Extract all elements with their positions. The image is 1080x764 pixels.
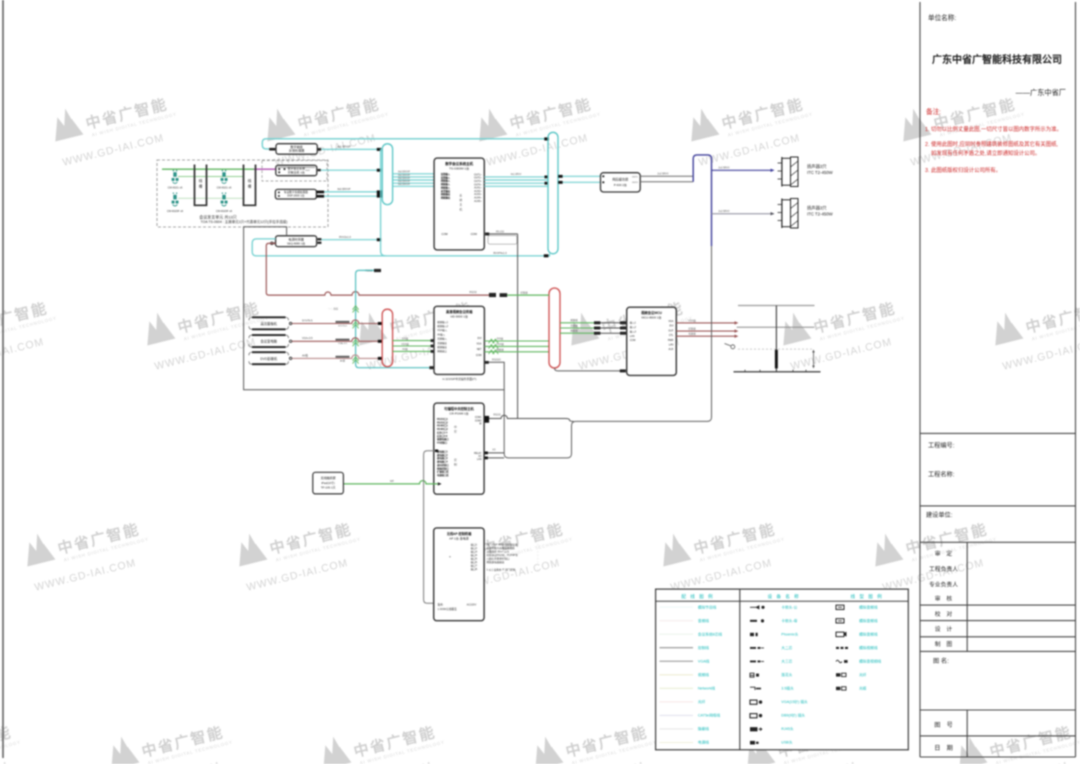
AV source box <box>252 352 286 364</box>
programmable central controller <box>434 403 484 494</box>
power amplifier box <box>601 173 641 192</box>
legend connector row 10 <box>750 727 758 731</box>
svg-text:中: 中 <box>454 424 457 429</box>
svg-text:Phoenix头: Phoenix头 <box>781 631 798 636</box>
legend cable row 3 <box>836 632 844 636</box>
bus C to MCU wires <box>560 322 594 324</box>
svg-text:接口3:: 接口3: <box>471 550 478 554</box>
svg-text:接口7:: 接口7: <box>471 563 478 567</box>
svg-text:工程名称:: 工程名称: <box>928 471 955 479</box>
wire cyan sequencer return loop <box>252 239 549 256</box>
svg-text:AV线: AV线 <box>302 353 308 357</box>
red bus C <box>549 288 560 368</box>
svg-text:设 备 名 称: 设 备 名 称 <box>768 593 801 600</box>
legend connector row 5 <box>750 660 761 662</box>
svg-text:AV线: AV线 <box>402 347 408 351</box>
svg-text:无线AP·控制终端: 无线AP·控制终端 <box>446 531 472 536</box>
svg-text:建设单位:: 建设单位: <box>926 511 953 519</box>
touch panel wire <box>343 481 437 484</box>
svg-text:审 核: 审 核 <box>935 595 953 603</box>
svg-text:高清摄像机: 高清摄像机 <box>260 321 277 326</box>
wire green conference trunk <box>162 168 254 170</box>
svg-text:WWW.GD-IAI.COM: WWW.GD-IAI.COM <box>697 132 801 169</box>
svg-text:1.以上设备由 IT 部门提供: 1.以上设备由 IT 部门提供 <box>487 568 516 572</box>
svg-text:控制主机 1台: 控制主机 1台 <box>288 169 305 174</box>
svg-text:网络线: 网络线 <box>570 329 578 333</box>
feedback suppressor box <box>276 144 317 155</box>
svg-text:纯后级功放: 纯后级功放 <box>612 177 629 182</box>
svg-text:审 定: 审 定 <box>935 550 953 558</box>
svg-text:WWW.GD-IAI.COM: WWW.GD-IAI.COM <box>1001 336 1080 373</box>
red bus D <box>382 309 392 366</box>
svg-text:单位名称:: 单位名称: <box>928 13 956 22</box>
svg-text:线: 线 <box>199 178 203 183</box>
svg-text:CAT5e网络线: CAT5e网络线 <box>698 713 721 718</box>
speaker feeder 1 <box>712 169 771 171</box>
speaker symbol <box>781 199 783 229</box>
HD video conference codec <box>434 306 484 374</box>
svg-text:统: 统 <box>459 197 462 202</box>
svg-text:IR: IR <box>479 423 482 425</box>
dashed box conference-mic zone <box>157 160 328 227</box>
svg-text:音频输入: 音频输入 <box>437 337 447 341</box>
power sequencer box <box>276 236 317 247</box>
legend wire row 5 <box>660 660 694 662</box>
svg-text:DVI线: DVI线 <box>402 336 409 340</box>
svg-text:线: 线 <box>248 178 252 183</box>
cyan trunk line <box>381 149 386 256</box>
legend connector row 7 <box>750 687 755 690</box>
svg-text:WWW.GD-IAI.COM: WWW.GD-IAI.COM <box>0 336 45 373</box>
svg-text:COM: COM <box>476 354 482 357</box>
svg-text:扬声器3只: 扬声器3只 <box>807 205 827 212</box>
svg-text:数字会议系统主机: 数字会议系统主机 <box>444 161 473 166</box>
dashed sub-box around conference host <box>262 161 327 182</box>
svg-text:TOA TS-0604 : 主席单元1只+代表单元12只(手: TOA TS-0604 : 主席单元1只+代表单元12只(手拉手连接) <box>201 219 288 224</box>
svg-text:图 号: 图 号 <box>934 722 953 729</box>
bus A to host wires <box>393 173 434 175</box>
svg-text:模拟音频线: 模拟音频线 <box>859 604 878 609</box>
amp output wires <box>640 175 693 177</box>
svg-text:实现系统内各种设备调用: 实现系统内各种设备调用 <box>487 546 515 550</box>
bus D to codec wires <box>393 340 434 342</box>
cable-duct bracket 2 <box>244 165 256 206</box>
svg-text:PWR: PWR <box>668 339 674 342</box>
svg-text:模拟音频线: 模拟音频线 <box>859 618 878 623</box>
svg-text:OUT: OUT <box>305 170 310 172</box>
svg-text:DVI线: DVI线 <box>497 337 504 341</box>
svg-text:8x0.5RVVP: 8x0.5RVVP <box>398 184 410 186</box>
wire AV source <box>292 338 378 341</box>
projector mark <box>731 345 735 349</box>
cyan bus B <box>548 132 558 254</box>
svg-text:——广东中省厂: ——广东中省厂 <box>1016 88 1066 97</box>
svg-text:DVI: DVI <box>669 325 673 328</box>
svg-text:RJ45头: RJ45头 <box>781 726 794 731</box>
svg-text:扬声器3只: 扬声器3只 <box>807 163 827 170</box>
svg-text:视频会议MCU: 视频会议MCU <box>641 310 662 315</box>
svg-text:线 型 图 例: 线 型 图 例 <box>851 593 884 600</box>
wire AV source <box>292 320 378 324</box>
legend cable row 6 <box>836 673 840 676</box>
svg-text:视频线: 视频线 <box>570 318 578 322</box>
room loop control wire <box>244 227 505 390</box>
svg-text:VGA线: VGA线 <box>496 342 504 346</box>
control stub <box>374 269 381 272</box>
legend connector row 8 <box>750 700 757 704</box>
wireless touch panel <box>313 472 344 494</box>
wire cyan loop to main bus top <box>262 139 546 149</box>
svg-text:会议发言单元 共13只: 会议发言单元 共13只 <box>199 214 237 220</box>
svg-text:接口1:: 接口1: <box>471 543 478 547</box>
svg-text:音频线: 音频线 <box>570 323 578 327</box>
svg-text:ITC T2-450W: ITC T2-450W <box>807 170 834 175</box>
svg-text:WWW.GD-IAI.COM: WWW.GD-IAI.COM <box>485 132 589 169</box>
svg-text:VGA(15针) 插头: VGA(15针) 插头 <box>781 699 808 704</box>
svg-text:隐蔽线: 隐蔽线 <box>698 726 709 731</box>
svg-text:制: 制 <box>454 462 457 467</box>
svg-text:两路继电器输出: 两路继电器输出 <box>487 560 505 564</box>
svg-text:设 计: 设 计 <box>935 625 953 633</box>
teal control run to codec <box>356 270 430 367</box>
legend connector row 4 <box>750 647 761 649</box>
conference mic unit <box>222 170 223 171</box>
svg-text:光纤: 光纤 <box>698 699 706 704</box>
conference host box <box>276 165 317 175</box>
control wire into bus C <box>489 293 496 297</box>
svg-text:日 期: 日 期 <box>934 744 953 752</box>
svg-text:COM: COM <box>441 232 448 236</box>
page left border <box>2 0 4 758</box>
svg-text:2x2.5RVV: 2x2.5RVV <box>718 166 730 169</box>
svg-text:工程编号:: 工程编号: <box>928 442 955 450</box>
legend cable row 2 <box>836 619 844 623</box>
speaker symbol <box>781 157 783 187</box>
svg-text:WWW.GD-IAI.COM: WWW.GD-IAI.COM <box>245 557 349 594</box>
svg-text:工程负责人: 工程负责人 <box>929 565 958 573</box>
legend cable row 7 <box>836 687 840 690</box>
svg-text:RS232: RS232 <box>493 414 501 417</box>
wire AV source <box>292 355 378 359</box>
svg-text:RS232: RS232 <box>469 291 477 294</box>
svg-text:如发现有任何矛盾之处,请立即通知设计公司。: 如发现有任何矛盾之处,请立即通知设计公司。 <box>931 149 1040 157</box>
svg-text:DB9(9针) 插头: DB9(9针) 插头 <box>781 713 805 718</box>
svg-text:接口8:: 接口8: <box>471 567 478 571</box>
amp input wires <box>558 175 601 177</box>
svg-text:RVV2x1.0: RVV2x1.0 <box>339 235 351 239</box>
svg-text:模拟音频线: 模拟音频线 <box>859 631 878 636</box>
svg-text:WF: WF <box>390 480 394 483</box>
svg-text:AC220V: AC220V <box>467 602 477 606</box>
svg-text:3.5插头: 3.5插头 <box>781 686 794 691</box>
svg-text:OUT1: OUT1 <box>632 176 639 178</box>
svg-text:VGA+3.5: VGA+3.5 <box>338 342 348 345</box>
wire green mic row3 <box>178 197 244 199</box>
svg-text:WWW.GD-IAI.COM: WWW.GD-IAI.COM <box>33 557 137 594</box>
svg-text:可编程中央控制主机: 可编程中央控制主机 <box>444 406 474 411</box>
svg-text:备用:: 备用: <box>438 602 444 606</box>
screen bottom line <box>734 371 821 373</box>
svg-text:P-600 2台: P-600 2台 <box>614 182 627 187</box>
svg-text:OUT: OUT <box>668 329 674 332</box>
legend cable row 5 <box>836 660 842 663</box>
svg-text:视频输入2: 视频输入2 <box>437 324 449 328</box>
svg-text:输入1: 输入1 <box>630 321 637 325</box>
svg-text:DVI: DVI <box>478 337 482 340</box>
svg-text:适用面积 30m² 以内: 适用面积 30m² 以内 <box>487 550 510 554</box>
svg-text:4x1.0RVV: 4x1.0RVV <box>511 173 522 176</box>
svg-text:模拟音视频线: 模拟音视频线 <box>859 658 881 663</box>
svg-text:CM-6020F x6: CM-6020F x6 <box>167 209 184 213</box>
speaker feeder 2 <box>712 213 771 215</box>
svg-text:ITC T2-450W: ITC T2-450W <box>807 212 834 217</box>
svg-text:电源线: 电源线 <box>698 740 709 745</box>
screen pole <box>775 306 777 372</box>
svg-text:CTL: CTL <box>669 334 674 337</box>
svg-text:配 线 图 例: 配 线 图 例 <box>681 593 714 600</box>
svg-text:8x0.5RVVP: 8x0.5RVVP <box>338 188 351 191</box>
svg-text:RVVP4x1.0: RVVP4x1.0 <box>493 251 507 255</box>
legend connector row 6 <box>750 673 754 677</box>
wire green mic row2 <box>178 176 244 178</box>
svg-text:AUX: AUX <box>668 348 673 351</box>
svg-text:校 对: 校 对 <box>935 610 953 618</box>
wire cyan box1 out <box>321 148 377 150</box>
svg-text:WWW.GD-IAI.COM: WWW.GD-IAI.COM <box>789 336 893 373</box>
svg-text:音频线: 音频线 <box>698 618 709 623</box>
svg-text:TP-10S 1只: TP-10S 1只 <box>321 486 336 490</box>
legend connector row 11 <box>750 741 755 745</box>
svg-text:USB头: USB头 <box>781 740 793 745</box>
svg-text:Network线: Network线 <box>698 686 716 691</box>
cable marker <box>336 339 350 341</box>
dimension arrow <box>813 351 815 368</box>
svg-text:主: 主 <box>459 202 462 207</box>
svg-text:八路红外发射控制口: 八路红外发射控制口 <box>487 556 510 560</box>
svg-text:CR-PGMⅡ 1台: CR-PGMⅡ 1台 <box>449 411 468 416</box>
codec right green wires <box>484 340 549 342</box>
ceiling line <box>738 305 815 307</box>
svg-text:专业数字音频处理器: 专业数字音频处理器 <box>284 190 308 194</box>
svg-text:模拟视频线: 模拟视频线 <box>859 645 878 650</box>
wire maroon sequencer control loop <box>266 243 489 295</box>
legend wire row 8 <box>660 701 694 703</box>
svg-text:AV输入: AV输入 <box>437 332 445 336</box>
svg-text:AUX5~: AUX5~ <box>474 200 482 203</box>
svg-text:H.323/SIP中文操作界面(IT): H.323/SIP中文操作界面(IT) <box>443 377 477 381</box>
svg-text:8x0.5RVVP: 8x0.5RVVP <box>398 175 410 177</box>
wire cyan processor out pair <box>324 191 377 193</box>
svg-text:AP 1台·含电源: AP 1台·含电源 <box>449 536 468 541</box>
cable marker <box>336 356 350 358</box>
controller to touch host wire <box>424 451 438 604</box>
svg-text:光纤: 光纤 <box>859 672 867 677</box>
svg-text:4x1.0RVVP: 4x1.0RVVP <box>337 145 351 149</box>
svg-text:HD-9000 1台: HD-9000 1台 <box>450 313 468 318</box>
svg-text:网络线: 网络线 <box>496 347 504 351</box>
svg-text:LAN: LAN <box>630 335 635 338</box>
AV source box <box>252 335 286 347</box>
legend connector row 9 <box>750 714 757 718</box>
digital conference system host <box>434 158 484 250</box>
svg-text:反馈处理器: 反馈处理器 <box>289 148 304 153</box>
wire cyan sequencer out <box>321 239 377 241</box>
controller COM1 wire (hop) <box>484 415 573 421</box>
svg-text:VGA线: VGA线 <box>401 342 409 346</box>
svg-text:WWW.GD-IAI.COM: WWW.GD-IAI.COM <box>153 336 257 373</box>
title block frame <box>920 2 1076 757</box>
svg-text:网络接口: 网络接口 <box>437 349 447 353</box>
svg-text:高清视频会议终端: 高清视频会议终端 <box>446 309 473 314</box>
svg-text:视频输入1: 视频输入1 <box>437 320 449 324</box>
svg-text:大二芯: 大二芯 <box>781 645 792 650</box>
svg-text:VGA输入: VGA输入 <box>437 328 447 332</box>
svg-text:西门子AP·8000 可控制设备: 西门子AP·8000 可控制设备 <box>487 543 518 547</box>
svg-text:机: 机 <box>459 206 462 211</box>
legend wire row 3 <box>660 633 694 635</box>
svg-text:∵∴ 线缆: ∵∴ 线缆 <box>328 307 339 311</box>
audio processor box <box>275 189 316 199</box>
conference mic unit <box>173 193 174 194</box>
svg-text:2x2.5RVV: 2x2.5RVV <box>718 210 730 213</box>
svg-text:控制线: 控制线 <box>520 290 528 294</box>
svg-text:控: 控 <box>454 429 457 434</box>
screen roller bar <box>775 350 778 369</box>
svg-text:DVD影碟机: DVD影碟机 <box>260 356 278 361</box>
svg-text:OUT2: OUT2 <box>632 182 639 184</box>
red notes <box>925 107 1062 174</box>
svg-text:视频线: 视频线 <box>698 672 709 677</box>
navy distribution hook <box>693 155 711 246</box>
svg-text:I/O: I/O <box>478 456 481 458</box>
svg-text:会议室电脑: 会议室电脑 <box>260 339 277 344</box>
svg-text:VGA: VGA <box>668 320 673 323</box>
svg-text:VGA+3.5: VGA+3.5 <box>302 336 313 340</box>
svg-text:槽: 槽 <box>199 183 203 188</box>
svg-text:槽: 槽 <box>248 183 252 188</box>
svg-text:接口6:: 接口6: <box>471 560 478 564</box>
svg-text:音频输出: 音频输出 <box>437 341 447 345</box>
svg-text:CM-6021 x6: CM-6021 x6 <box>168 186 183 190</box>
svg-text:RELAY: RELAY <box>474 452 482 455</box>
legend wire row 4 <box>660 647 694 649</box>
cable-duct bracket 1 <box>195 165 207 206</box>
svg-text:输入2: 输入2 <box>630 325 637 329</box>
svg-text:DSP-2600 1台: DSP-2600 1台 <box>287 194 305 198</box>
svg-text:大三芯: 大三芯 <box>781 658 792 663</box>
svg-text:WWW.GD-IAI.COM: WWW.GD-IAI.COM <box>669 557 773 594</box>
svg-text:SYV75-5: SYV75-5 <box>338 325 348 327</box>
video conference MCU <box>627 307 677 375</box>
legend connector row 3 <box>750 633 754 636</box>
svg-text:输入3: 输入3 <box>630 329 637 333</box>
svg-text:COM2: COM2 <box>475 420 482 422</box>
main cyan bus A <box>382 144 392 205</box>
svg-text:SYV75-5: SYV75-5 <box>302 318 313 322</box>
svg-text:COM: COM <box>630 339 636 342</box>
svg-text:COM: COM <box>471 232 478 236</box>
legend connector row 2 <box>750 620 757 622</box>
svg-text:8x0.5RVVP: 8x0.5RVVP <box>398 172 410 174</box>
svg-text:1-300M无线覆盖: 1-300M无线覆盖 <box>438 607 458 611</box>
wire cyan host out <box>321 169 378 171</box>
conference mic unit <box>222 193 223 194</box>
svg-text:MCU-8000 1台: MCU-8000 1台 <box>641 315 661 320</box>
wire magenta to host <box>254 168 276 170</box>
svg-text:莲花头: 莲花头 <box>781 672 792 677</box>
svg-text:RS232C: RS232C <box>492 359 501 362</box>
svg-text:VGA: VGA <box>476 343 481 346</box>
legend cable row 4 <box>836 647 848 649</box>
svg-text:CM-6020F x6: CM-6020F x6 <box>216 209 233 213</box>
legend cable row 1 <box>836 605 844 609</box>
svg-text:VGA线: VGA线 <box>698 658 710 663</box>
svg-text:模拟节目线: 模拟节目线 <box>698 604 717 609</box>
svg-text:WWW.GD-IAI.COM: WWW.GD-IAI.COM <box>0 760 9 764</box>
svg-text:WWW.GD-IAI.COM: WWW.GD-IAI.COM <box>61 132 165 169</box>
legend wire row 1 <box>660 606 694 608</box>
svg-text:会议系统8芯线: 会议系统8芯线 <box>698 631 722 636</box>
cable marker <box>336 321 350 323</box>
svg-text:图 名:: 图 名: <box>933 657 949 665</box>
svg-text:2. 使用此图时,应同时参照建筑装修图纸及其它有关图纸,: 2. 使用此图时,应同时参照建筑装修图纸及其它有关图纸, <box>925 140 1058 148</box>
svg-text:8x0.5RVVP: 8x0.5RVVP <box>398 181 410 183</box>
svg-text:iPad(10寸): iPad(10寸) <box>321 481 334 485</box>
svg-text:I/O: I/O <box>492 448 495 451</box>
svg-text:RS-232: RS-232 <box>496 230 505 233</box>
svg-text:VGA线: VGA线 <box>688 318 696 322</box>
legend wire row 11 <box>660 742 694 744</box>
svg-text:光缆: 光缆 <box>859 686 867 691</box>
legend wire row 9 <box>660 714 694 716</box>
svg-text:控制协议RS232、TCP/IP等: 控制协议RS232、TCP/IP等 <box>487 553 519 557</box>
svg-text:广东中省广智能科技有限公司: 广东中省广智能科技有限公司 <box>932 53 1062 66</box>
svg-text:控制线: 控制线 <box>698 645 709 650</box>
svg-text:视频输出: 视频输出 <box>437 345 447 349</box>
svg-text:专业负责人: 专业负责人 <box>929 581 958 589</box>
svg-text:卡侬头-公: 卡侬头-公 <box>781 604 797 609</box>
touch control host <box>434 528 484 621</box>
svg-text:COM1: COM1 <box>475 417 482 419</box>
svg-text:8x0.5RVVP: 8x0.5RVVP <box>398 178 410 180</box>
svg-text:1. 切勿以比例丈量此图,一切尺寸皆以图内数字所示为准。: 1. 切勿以比例丈量此图,一切尺寸皆以图内数字所示为准。 <box>925 125 1062 133</box>
bus C bottom link to MCU <box>555 368 622 371</box>
svg-text:接口4:: 接口4: <box>471 553 478 557</box>
COM link wire to controller <box>484 233 517 235</box>
svg-text:控制线: 控制线 <box>688 327 696 331</box>
svg-text:SEQ-8080 1台: SEQ-8080 1台 <box>287 241 305 245</box>
legend wire row 10 <box>660 728 694 730</box>
MCU output wires <box>676 322 734 324</box>
svg-text:电源线: 电源线 <box>688 332 696 336</box>
svg-text:系: 系 <box>459 193 462 198</box>
conference mic unit <box>173 170 174 171</box>
svg-text:TS-0300M 1台: TS-0300M 1台 <box>449 166 469 171</box>
svg-text:接口2:: 接口2: <box>471 546 478 550</box>
vertical control wire <box>517 234 519 419</box>
legend wire row 2 <box>660 620 694 622</box>
legend table <box>656 589 909 750</box>
legend connector row 1 <box>750 606 759 609</box>
svg-text:LAN: LAN <box>669 344 674 347</box>
svg-text:控: 控 <box>454 457 457 462</box>
host right cyan wires to bus B <box>484 176 548 178</box>
svg-text:制 图: 制 图 <box>935 640 953 648</box>
svg-text:LAN: LAN <box>477 458 482 461</box>
svg-text:NET: NET <box>477 348 482 351</box>
svg-text:备注:: 备注: <box>926 107 941 116</box>
svg-text:3. 此图纸版权归设计公司所有。: 3. 此图纸版权归设计公司所有。 <box>925 166 1001 174</box>
